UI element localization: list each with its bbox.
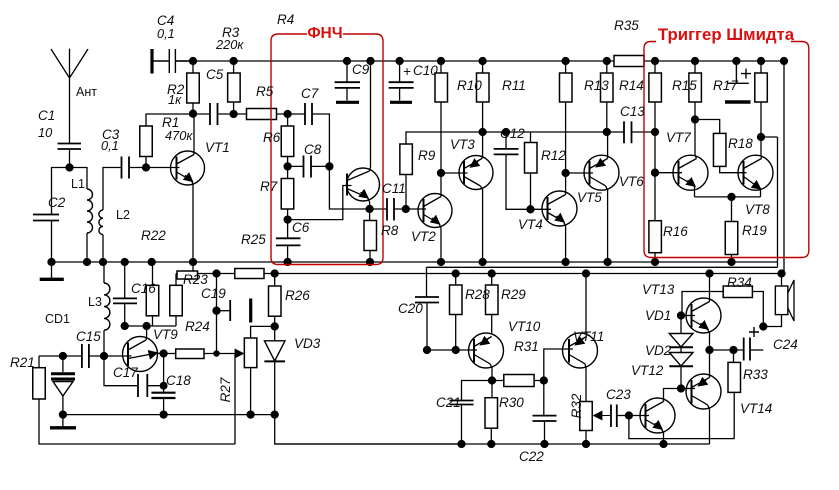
- node C18 rail: [160, 411, 167, 418]
- resistor R14: [601, 73, 614, 102]
- svg-text:VD2: VD2: [645, 343, 672, 358]
- wire Q collector: [370, 61, 371, 171]
- svg-text:C5: C5: [206, 67, 224, 82]
- svg-text:C20: C20: [398, 301, 423, 316]
- wire R16 leads: [654, 173, 656, 262]
- node antenna junction: [66, 164, 73, 171]
- svg-text:R25: R25: [241, 232, 266, 247]
- transistor VT13: [686, 298, 721, 333]
- node L2 L3 bus: [100, 259, 107, 266]
- ground bus: [51, 261, 778, 263]
- svg-text:C24: C24: [773, 337, 798, 352]
- capacitor C3: [122, 157, 130, 179]
- node output top: [706, 347, 713, 354]
- capacitor C18: [151, 393, 175, 398]
- svg-text:C17: C17: [113, 365, 138, 380]
- capacitor C16: [113, 298, 137, 303]
- wiper arrow R27: [235, 353, 243, 355]
- node R16 bus: [652, 259, 659, 266]
- svg-text:0,1: 0,1: [101, 138, 119, 153]
- svg-text:VT11: VT11: [573, 329, 604, 344]
- wire C16 leads: [124, 262, 126, 326]
- resistor R12: [525, 143, 538, 174]
- ground bar C10: [390, 101, 412, 104]
- svg-text:R5: R5: [256, 84, 274, 99]
- svg-text:Ант: Ант: [76, 85, 97, 99]
- transistor VT8: [738, 155, 773, 190]
- svg-text:C9: C9: [352, 62, 370, 77]
- node C2 bus: [48, 259, 55, 266]
- capacitor C13: [624, 121, 632, 143]
- svg-text:VT14: VT14: [740, 401, 772, 416]
- svg-text:VT6: VT6: [619, 174, 644, 189]
- wire Q emitter: [368, 198, 370, 210]
- node C3 R1 base: [143, 164, 150, 171]
- wire R18 top link: [695, 120, 720, 134]
- svg-text:R21: R21: [10, 355, 35, 370]
- resistor R1: [140, 126, 153, 157]
- node R33 top: [730, 347, 737, 354]
- node VT13 collector rail: [706, 270, 713, 277]
- wire VT10 collector down: [490, 364, 492, 381]
- node R28 rail: [452, 270, 459, 277]
- wire R7 leads: [287, 166, 289, 219]
- resistor R29: [486, 285, 499, 315]
- wire R29 leads: [491, 274, 493, 334]
- svg-text:C23: C23: [606, 387, 631, 402]
- wire VT7 collector: [695, 120, 697, 159]
- transistor VT4: [542, 191, 577, 226]
- plus sign C24: [749, 327, 759, 337]
- ground bar C9: [336, 101, 359, 104]
- wire to C2 branch: [52, 168, 71, 215]
- svg-text:C19: C19: [201, 286, 226, 301]
- node VT4 emitter bus: [562, 259, 569, 266]
- red box FNCh: [271, 34, 809, 265]
- wire C1 to node: [69, 149, 71, 168]
- capacitor C8: [304, 156, 312, 178]
- svg-text:C21: C21: [436, 395, 461, 410]
- resistor R35: [614, 56, 644, 67]
- svg-text:VT8: VT8: [745, 202, 770, 217]
- svg-text:VD1: VD1: [645, 308, 671, 323]
- wire R6 leads: [287, 114, 289, 166]
- wire audio feed line: [427, 266, 778, 268]
- wire VT8 feed down right: [783, 61, 785, 274]
- capacitor C6: [276, 238, 301, 245]
- svg-text:R34: R34: [727, 275, 752, 290]
- svg-text:VT5: VT5: [577, 190, 602, 205]
- capacitor C9: [335, 82, 360, 88]
- transistor VT12: [640, 398, 675, 433]
- wire R23 bottom: [175, 316, 177, 326]
- node VT11 emitter rail: [583, 270, 590, 277]
- wire C5 line: [193, 113, 234, 115]
- svg-text:R19: R19: [742, 223, 767, 238]
- resistor R23: [170, 285, 183, 316]
- wire R27 bottom: [250, 368, 252, 415]
- svg-text:C8: C8: [304, 142, 322, 157]
- resistor R11: [477, 73, 490, 102]
- terminal bar C4: [150, 49, 153, 74]
- wire emitters join: [695, 196, 761, 198]
- wire feedback line: [629, 416, 735, 439]
- resistor R34: [723, 286, 752, 298]
- wire R26 leads: [274, 274, 276, 327]
- node R32 rail: [583, 441, 590, 448]
- resistor R31: [504, 375, 534, 387]
- wire L3 node down to C17: [104, 356, 138, 386]
- node C16 bus: [121, 259, 128, 266]
- ground bar CD1: [50, 426, 76, 429]
- svg-text:VT12: VT12: [631, 363, 664, 378]
- node VT9 collector: [143, 323, 150, 330]
- wire VT7 base: [655, 172, 682, 174]
- varicap CD1: [62, 356, 64, 372]
- svg-text:10: 10: [38, 125, 53, 140]
- svg-text:R22: R22: [141, 228, 166, 243]
- wire base zigzag: [288, 186, 352, 220]
- wire R23 top to rail: [175, 274, 177, 286]
- resistor R8: [364, 221, 377, 251]
- wire VT1 emitter to R22: [192, 262, 194, 271]
- wire C18 bottom: [163, 398, 165, 415]
- wire VT11 base: [544, 349, 573, 381]
- svg-text:R30: R30: [499, 395, 524, 410]
- node speaker rail: [778, 270, 785, 277]
- resistor R13: [560, 73, 573, 102]
- resistor R25: [235, 269, 264, 279]
- wire R5 leads: [234, 113, 288, 115]
- wire line C15: [39, 356, 63, 368]
- wire R33 leads: [733, 350, 736, 439]
- diode VD1: [680, 316, 682, 334]
- capacitor C17: [138, 374, 147, 397]
- capacitor C15: [82, 344, 89, 368]
- svg-text:R29: R29: [501, 287, 526, 302]
- wire to L1: [70, 168, 88, 190]
- resistor R16: [649, 221, 662, 253]
- lower supply rail: [176, 273, 784, 275]
- capacitor C11: [387, 198, 394, 221]
- node R15 bus: [652, 58, 659, 65]
- wire R24 leads: [164, 353, 235, 355]
- node R27 rail: [247, 411, 254, 418]
- wire C23 right: [617, 415, 629, 417]
- wire VT9 emitter right: [157, 352, 164, 354]
- svg-text:R32: R32: [569, 393, 584, 418]
- electrolytic cap C14: [727, 61, 749, 83]
- wire R34 right: [752, 292, 763, 327]
- wire VT10 base line: [427, 349, 477, 351]
- capacitor C23: [611, 405, 617, 428]
- wire collector line: [125, 325, 176, 327]
- capacitor C10: [389, 82, 414, 88]
- svg-text:VT3: VT3: [450, 137, 475, 152]
- wire VT3 base: [441, 172, 468, 174]
- capacitor C2: [33, 215, 59, 221]
- svg-text:R17: R17: [713, 78, 738, 93]
- node VT3 emitter rail: [479, 129, 486, 136]
- node VT8 collector: [758, 134, 765, 141]
- bottom rail: [275, 443, 710, 445]
- wire VT13 collector up: [709, 274, 711, 302]
- wire R9 bottom: [405, 175, 407, 210]
- wire C21 bottom: [461, 405, 463, 445]
- wire C11 leads: [370, 208, 406, 210]
- wire VT13 base: [681, 315, 695, 317]
- node C15 L3 VT9: [101, 353, 108, 360]
- wire R28 leads: [455, 274, 457, 351]
- wire R2 leads: [192, 61, 194, 114]
- wire R1 top to line: [146, 114, 193, 126]
- wire VT5 emitter up: [607, 132, 609, 159]
- node R17 VT7 collector: [692, 116, 699, 123]
- node VT2 emitter bus: [438, 259, 445, 266]
- node VT2 collector: [438, 170, 445, 177]
- node VT5 emitter rail: [603, 129, 610, 136]
- wire VT11 emitter up: [585, 274, 588, 337]
- wire R30 leads: [490, 381, 493, 445]
- wire L2 top to C3: [103, 168, 122, 211]
- wire VT14 collector up: [709, 350, 711, 378]
- resistor R26: [269, 286, 282, 316]
- node C6 bus: [284, 259, 291, 266]
- node R26 rail top: [271, 270, 278, 277]
- wire C13 right to R15: [632, 131, 656, 133]
- svg-text:VT10: VT10: [508, 319, 541, 334]
- resistor R28: [450, 285, 463, 315]
- resistor R18: [713, 133, 726, 166]
- wire VT11 collector down: [585, 364, 586, 402]
- diode VD2: [680, 347, 682, 352]
- svg-text:R8: R8: [381, 223, 399, 238]
- node R30 rail: [488, 441, 495, 448]
- resistor R5: [247, 109, 277, 120]
- wire R18 bottom to VT8 base: [720, 166, 747, 172]
- svg-text:R15: R15: [672, 78, 697, 93]
- wire VT13 emitter: [708, 329, 710, 350]
- wire C3 to R1 node: [129, 167, 146, 169]
- node C10 bus: [396, 58, 403, 65]
- wire C8 leads: [288, 165, 330, 167]
- node VT3 collector bus: [479, 259, 486, 266]
- wire L2 to bus: [102, 235, 104, 262]
- node R3 top bus: [230, 58, 237, 65]
- node VT5 collector bus: [604, 259, 611, 266]
- wire VT3 emitter up: [481, 132, 484, 159]
- node VT12 emitter rail: [660, 441, 667, 448]
- wire R21 bottom to rail: [39, 399, 235, 444]
- node VT4 collector R13: [562, 170, 569, 177]
- node C12 rail: [503, 129, 510, 136]
- top supply bus: [176, 60, 785, 62]
- potentiometer R27: [244, 338, 257, 368]
- wire C15 leads: [63, 355, 104, 357]
- node C11 R9: [402, 206, 409, 213]
- svg-text:Триггер Шмидта: Триггер Шмидта: [658, 25, 795, 44]
- svg-text:C16: C16: [131, 281, 156, 296]
- node R26 VD3: [271, 323, 278, 330]
- wire base VT1: [146, 167, 180, 169]
- svg-text:VT2: VT2: [411, 229, 436, 244]
- svg-text:0,1: 0,1: [157, 26, 175, 41]
- resistor R2: [187, 73, 200, 103]
- node Q collector bus: [367, 58, 374, 65]
- wire C7 leads: [288, 114, 330, 166]
- transistor VT9: [123, 337, 158, 372]
- svg-text:R10: R10: [457, 78, 482, 93]
- inductor L1: [87, 189, 93, 233]
- node C22 rail: [541, 441, 548, 448]
- wire VT4 collector: [565, 173, 567, 195]
- svg-text:1к: 1к: [168, 92, 182, 107]
- svg-text:C7: C7: [301, 86, 319, 101]
- wire VT12 emitter: [662, 429, 664, 444]
- node R10 bus: [438, 58, 445, 65]
- svg-text:L2: L2: [116, 208, 130, 222]
- node R17 bus: [692, 58, 699, 65]
- svg-text:C2: C2: [48, 195, 66, 210]
- wire VT8 emitter: [759, 189, 762, 197]
- wire VT1 collector: [193, 114, 195, 155]
- svg-text:L1: L1: [71, 177, 85, 191]
- wire R1 bottom: [145, 157, 147, 168]
- wire L1 to bus: [86, 233, 88, 262]
- svg-text:R9: R9: [418, 148, 436, 163]
- node R12 base VT4: [527, 206, 534, 213]
- wire VT12 base: [629, 415, 649, 417]
- svg-text:C22: C22: [519, 449, 544, 464]
- svg-text:VT7: VT7: [666, 130, 691, 145]
- node VD3 rail: [271, 411, 278, 418]
- node R14 bus: [603, 58, 610, 65]
- node R19 bus: [728, 259, 735, 266]
- wire ground stub left: [51, 262, 53, 278]
- wire C10 leads: [399, 61, 401, 101]
- wire C19 column: [216, 274, 218, 354]
- svg-text:VT9: VT9: [153, 327, 178, 342]
- red box Schmitt trigger: [644, 42, 809, 258]
- resistor R24a: [146, 285, 159, 316]
- node R34 C24 speaker: [760, 323, 767, 330]
- resistor R10: [435, 73, 448, 102]
- wire R10 leads: [440, 61, 442, 173]
- potentiometer R32: [580, 402, 593, 431]
- node VT14 base: [678, 385, 685, 392]
- node C14 bus: [733, 58, 740, 65]
- svg-text:220к: 220к: [215, 37, 244, 52]
- wire R11 leads: [482, 61, 484, 132]
- svg-text:R14: R14: [619, 78, 644, 93]
- svg-text:R35: R35: [614, 18, 639, 33]
- wire VT9 base: [104, 355, 132, 357]
- inductor L2: [99, 210, 103, 235]
- wire R3 leads: [233, 61, 235, 114]
- svg-text:R12: R12: [541, 148, 566, 163]
- svg-text:C11: C11: [382, 181, 406, 196]
- svg-text:+: +: [403, 64, 411, 79]
- svg-text:VT1: VT1: [205, 140, 230, 155]
- svg-text:CD1: CD1: [45, 312, 70, 326]
- node C21 rail: [458, 441, 465, 448]
- resistor R6: [281, 126, 294, 157]
- node R15 bottom: [652, 129, 659, 136]
- transistor VT2: [418, 194, 452, 228]
- node C9 bus: [344, 58, 351, 65]
- wire R14 leads: [606, 61, 608, 132]
- node VT7 base: [652, 169, 659, 176]
- wire C9 leads: [346, 61, 348, 101]
- capacitor C22: [543, 381, 545, 416]
- svg-text:R31: R31: [514, 339, 539, 354]
- resistor R9: [400, 144, 413, 175]
- mid rail left: [63, 414, 275, 416]
- wire R9 top to rail: [406, 132, 624, 144]
- wire feedback to emitter line: [329, 166, 369, 209]
- node C19 tap: [213, 270, 220, 277]
- svg-text:R13: R13: [584, 78, 609, 93]
- svg-text:C10: C10: [413, 63, 438, 78]
- wire R15 leads: [654, 61, 656, 173]
- node L1 bus: [84, 259, 91, 266]
- node R24a bus: [148, 259, 155, 266]
- capacitor C21: [450, 401, 474, 405]
- svg-text:L3: L3: [88, 295, 102, 309]
- wire VT8 collector up: [760, 137, 763, 159]
- wire VT2 base: [406, 208, 426, 210]
- node R13 bus: [562, 58, 569, 65]
- node R28 base: [452, 347, 459, 354]
- svg-text:C1: C1: [38, 108, 55, 123]
- svg-text:R28: R28: [465, 287, 490, 302]
- capacitor C5: [210, 103, 218, 125]
- wire VT2 emitter: [439, 224, 441, 263]
- node C23 VT12 base: [625, 412, 632, 419]
- ground bar left: [40, 278, 64, 281]
- node R3 bottom: [230, 111, 237, 118]
- wire R24a leads: [151, 262, 154, 326]
- svg-text:R16: R16: [663, 224, 688, 239]
- wire R20 leads: [760, 61, 762, 137]
- resistor R17: [689, 73, 702, 102]
- resistor R33: [728, 362, 741, 392]
- node R20 bus: [758, 58, 765, 65]
- zener diode VD3: [274, 326, 276, 340]
- svg-text:VD3: VD3: [294, 336, 321, 351]
- svg-text:R7: R7: [260, 179, 278, 194]
- wire R12 leads: [530, 132, 532, 209]
- node emitter R8: [366, 206, 373, 213]
- wire VT1 emitter: [192, 181, 193, 262]
- svg-text:R4: R4: [277, 12, 294, 27]
- resistor R19: [725, 222, 738, 255]
- wire R27 top: [251, 326, 275, 338]
- wire VT2 collector: [440, 173, 442, 197]
- wire tap down to rail: [234, 354, 236, 445]
- wire R19 top: [731, 197, 733, 222]
- wire R8 leads: [369, 209, 371, 262]
- wire C24 right: [750, 349, 763, 351]
- svg-text:R23: R23: [183, 272, 208, 287]
- node C20 base line: [424, 347, 431, 354]
- node C16 bottom: [121, 323, 128, 330]
- node corner bus right: [781, 58, 788, 65]
- resistor R22: [177, 271, 198, 279]
- transistor VT11: [563, 333, 598, 368]
- node CD1 top: [59, 353, 66, 360]
- ground stub CD1: [62, 415, 64, 427]
